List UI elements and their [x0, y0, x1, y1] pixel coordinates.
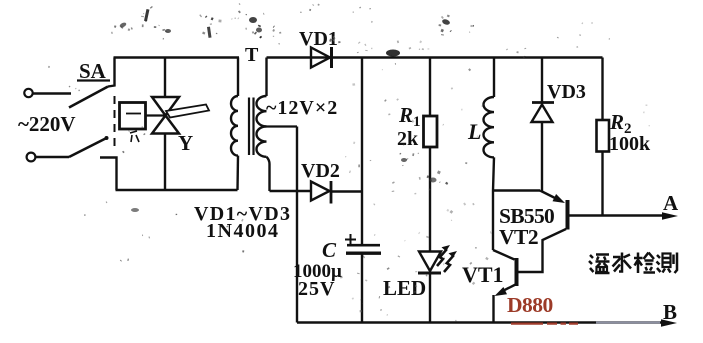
wire L bottom to VT1 collector node	[493, 157, 494, 250]
svg-text:VT1: VT1	[462, 262, 504, 287]
wire VT1 emitter lead	[492, 295, 494, 323]
transistor VT1 emitter arrow	[495, 287, 508, 296]
wire VT2 base to A	[569, 214, 666, 216]
wire VD2 anode	[270, 190, 312, 192]
label overflow-detect char 检	[634, 253, 655, 274]
transformer T primary lead bottom	[236, 156, 239, 190]
capacitor C1 bottom plate	[346, 251, 381, 254]
solenoid coil box	[120, 103, 146, 130]
valve Y bottom triangle	[152, 116, 179, 134]
diode VD3 cathode bar	[532, 101, 554, 104]
wire bottom rail	[297, 321, 664, 323]
wire LED bottom lead	[429, 275, 431, 323]
svg-text:C: C	[322, 238, 337, 262]
transistor VT2 emitter arrow	[553, 194, 566, 203]
LED emission arrow 1 head	[442, 245, 451, 251]
wire top rail right	[267, 56, 603, 58]
wire L top lead	[493, 58, 495, 98]
label SA underline	[77, 79, 110, 81]
svg-text:~12V×2: ~12V×2	[266, 97, 338, 119]
transformer T secondary lead top	[265, 58, 267, 97]
wire valve vertical	[164, 58, 166, 191]
capacitor C1 top plate	[347, 244, 380, 247]
wire VD2 cathode	[332, 190, 362, 192]
resistor R1	[424, 116, 438, 147]
wire bottom terminal lead	[36, 156, 69, 158]
wire VT1 emitter diagonal	[503, 284, 517, 291]
wire center tap	[264, 125, 297, 127]
diode VD2 cathode bar	[330, 181, 333, 204]
capacitor C1 polarity plus	[345, 234, 356, 245]
terminal bottom input	[27, 153, 36, 162]
svg-text:A: A	[663, 191, 679, 215]
wire R2 bottom lead	[601, 152, 603, 216]
LED emission arrow 2	[444, 255, 454, 272]
transformer T core	[249, 98, 254, 156]
svg-text:R1: R1	[398, 103, 421, 130]
wire VD3 anode lead	[541, 122, 543, 192]
label overflow-detect char 测	[657, 253, 678, 274]
switch SA gang dashed link	[114, 96, 116, 152]
LED emission arrow 2 head	[449, 251, 458, 257]
svg-text:VD1: VD1	[299, 28, 338, 50]
svg-text:B: B	[663, 300, 677, 324]
svg-text:L: L	[467, 119, 481, 144]
wire R1 top lead	[429, 58, 431, 117]
resistor R2	[597, 120, 610, 152]
LED cathode bar	[418, 272, 441, 275]
wire solenoid link	[146, 114, 165, 116]
svg-text:2k: 2k	[397, 128, 419, 150]
LED diode triangle	[419, 252, 441, 272]
LED emission arrow 1	[437, 249, 447, 266]
svg-text:100k: 100k	[609, 133, 651, 155]
wire bottom contact corner	[100, 158, 117, 191]
node B arrow	[661, 319, 677, 326]
diode VD1 cathode bar	[330, 47, 333, 68]
svg-text:1N4004: 1N4004	[206, 220, 279, 242]
svg-text:VD2: VD2	[301, 160, 340, 182]
svg-text:VT2: VT2	[499, 225, 538, 249]
label overflow-detect char 水	[613, 253, 632, 272]
valve Y actuator pennant	[166, 105, 209, 118]
transistor VT1 base bar	[515, 258, 519, 286]
wire R1 to LED	[429, 147, 431, 252]
diode VD2	[311, 182, 330, 201]
switch SA bottom blade tip	[105, 136, 109, 140]
wire VT2 emitter diagonal	[540, 191, 560, 201]
wire VT1 collector diagonal	[493, 250, 515, 260]
wire R2 top lead	[601, 58, 603, 121]
switch SA top blade	[69, 87, 108, 108]
transformer T primary winding	[231, 96, 238, 156]
svg-text:Y: Y	[178, 131, 193, 155]
svg-text:25V: 25V	[298, 278, 335, 300]
wire mid rail lower	[361, 254, 363, 323]
bottom rail red dashes	[511, 323, 578, 325]
wire top rail left	[114, 56, 240, 58]
diode VD3 triangle	[532, 105, 553, 123]
label overflow-detect char 溢	[589, 255, 610, 274]
switch SA bottom blade	[69, 138, 108, 158]
wire mid rail upper	[361, 58, 363, 245]
transistor VT2 base bar	[566, 200, 570, 230]
noise glyph under box	[130, 131, 139, 142]
svg-text:LED: LED	[383, 276, 426, 300]
wire VD3 top lead	[541, 58, 543, 103]
svg-text:VD3: VD3	[547, 81, 586, 103]
inductor L	[483, 97, 494, 157]
wire center tap vertical	[296, 127, 298, 323]
terminal top input	[24, 89, 32, 97]
wire primary loop bottom	[116, 189, 238, 191]
wire VT2 collector to VT1 base	[518, 229, 567, 272]
scan noise speckles	[48, 3, 649, 322]
transformer T primary lead top	[237, 58, 239, 97]
wire top corner to rail	[108, 58, 115, 87]
wire VT2 emitter horizontal	[493, 189, 540, 191]
wire bottom rail gray segment	[596, 321, 660, 323]
svg-text:D880: D880	[507, 293, 553, 317]
transformer T secondary lead bottom	[267, 157, 270, 191]
node A arrow	[662, 212, 678, 219]
solenoid box inner mark	[126, 113, 141, 115]
svg-text:~220V: ~220V	[18, 112, 76, 136]
diode VD1	[311, 48, 330, 68]
wire top terminal lead	[33, 92, 71, 94]
transformer T secondary winding	[257, 96, 267, 157]
svg-text:T: T	[245, 44, 259, 66]
valve Y top triangle	[152, 97, 179, 116]
